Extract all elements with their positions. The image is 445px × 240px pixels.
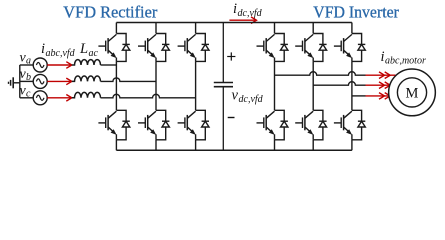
wire motor lead 2 — [366, 84, 390, 86]
ground — [9, 77, 20, 88]
rectifier switch S3 — [138, 34, 169, 62]
wire leg 4 collector to rail — [274, 23, 276, 34]
wire leg 1 emitter to rail — [115, 140, 117, 151]
rectifier switch S6 — [178, 110, 209, 140]
inverter switch S8 — [257, 110, 288, 140]
inverter switch S7 — [257, 34, 288, 62]
wire phase c to rectifier — [101, 94, 196, 97]
motor M — [389, 69, 436, 116]
wire leg 2 collector to rail — [155, 23, 157, 34]
wire source arrow phase a — [47, 64, 71, 66]
wire bus to source va — [20, 64, 33, 66]
inverter switch S11 — [334, 34, 365, 62]
svg-text:VFD Rectifier: VFD Rectifier — [63, 3, 157, 22]
wire phase a to rectifier — [101, 64, 117, 66]
wire bus to source vc — [20, 97, 33, 99]
svg-text:M: M — [406, 85, 419, 101]
rectifier switch S4 — [138, 110, 169, 140]
wire leg 6 collector to rail — [351, 23, 353, 34]
rectifier switch S2 — [98, 110, 129, 140]
source va — [33, 58, 47, 72]
wire inverter output 2 — [313, 82, 365, 86]
wire leg 6 midpoint — [351, 61, 353, 110]
source vb — [33, 74, 47, 88]
label - — [228, 117, 235, 119]
inverter switch S9 — [295, 34, 326, 62]
wire leg 5 collector to rail — [312, 23, 314, 34]
wire inverter output 1 — [275, 72, 366, 76]
rectifier switch S5 — [178, 34, 209, 62]
inductor L_ac phase c — [72, 92, 101, 97]
inverter switch S12 — [334, 110, 365, 140]
wire bus to source vb — [20, 80, 33, 82]
wire leg 3 emitter to rail — [195, 140, 197, 151]
arrow i_dc,vfd — [229, 19, 255, 21]
svg-text:VFD Inverter: VFD Inverter — [313, 3, 399, 22]
source vc — [33, 91, 47, 105]
wire leg 5 midpoint — [312, 61, 314, 110]
wire motor lead 1 — [366, 74, 396, 76]
rectifier switch S1 — [98, 34, 129, 62]
wire leg 4 midpoint — [274, 61, 276, 110]
wire leg 4 emitter to rail — [274, 140, 276, 151]
wire leg 1 collector to rail — [115, 23, 117, 34]
wire dc- rail — [116, 149, 352, 151]
wire leg 3 collector to rail — [195, 23, 197, 34]
wire source arrow phase c — [47, 97, 71, 99]
wire source bus — [19, 65, 21, 98]
wire leg 2 midpoint — [155, 61, 157, 110]
wire dc+ rail — [116, 22, 352, 24]
wire leg 5 emitter to rail — [312, 140, 314, 151]
wire motor lead 3 — [366, 95, 389, 97]
wire leg 6 emitter to rail — [351, 140, 353, 151]
wire leg 1 midpoint — [115, 61, 117, 110]
inductor L_ac phase b — [72, 76, 101, 81]
inverter switch S10 — [295, 110, 326, 140]
label + — [227, 52, 235, 60]
wire leg 2 emitter to rail — [155, 140, 157, 151]
wire inverter output 3 — [352, 95, 366, 97]
wire leg 3 midpoint — [195, 61, 197, 110]
wire phase b to rectifier — [101, 78, 157, 81]
inductor L_ac phase a — [72, 60, 101, 65]
capacitor C_dc — [214, 23, 233, 151]
wire source arrow phase b — [47, 80, 71, 82]
